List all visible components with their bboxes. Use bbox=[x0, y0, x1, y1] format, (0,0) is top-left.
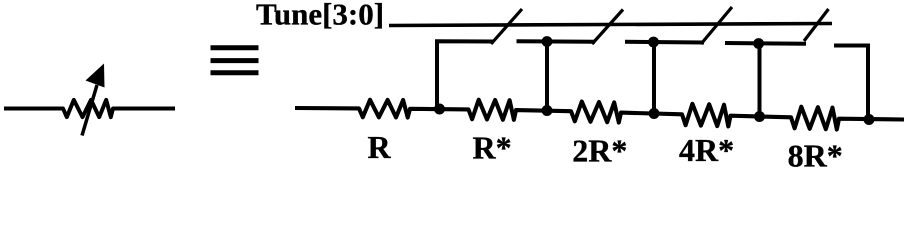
svg-text:2R*: 2R* bbox=[572, 132, 627, 168]
svg-text:Tune[3:0]: Tune[3:0] bbox=[256, 0, 384, 32]
svg-text:4R*: 4R* bbox=[679, 132, 734, 168]
svg-text:8R*: 8R* bbox=[788, 137, 843, 171]
svg-text:R*: R* bbox=[473, 129, 512, 165]
svg-text:R: R bbox=[368, 129, 392, 165]
